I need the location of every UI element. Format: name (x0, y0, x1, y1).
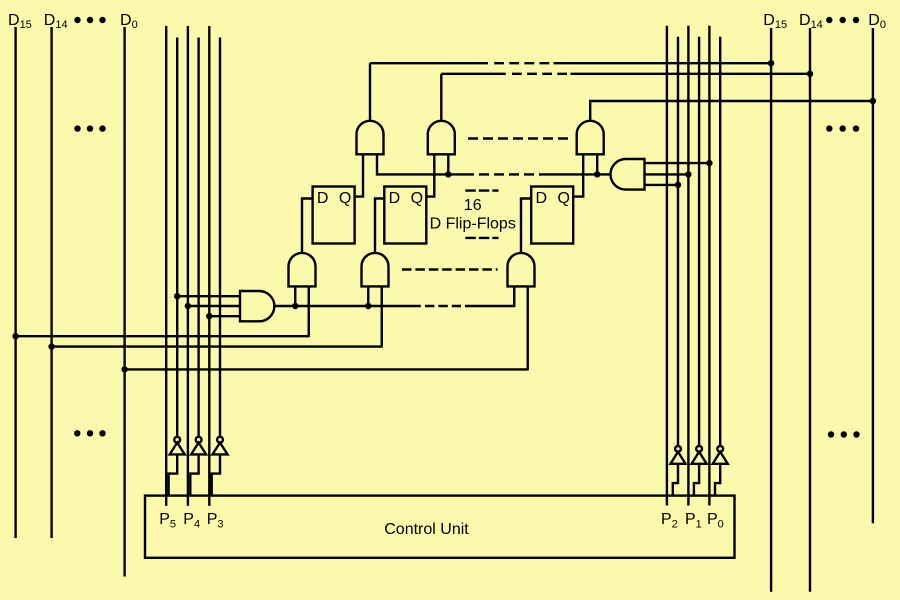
ellipsis dots mid right (826, 125, 859, 131)
inverter N2 (671, 446, 686, 496)
inverter output line P0' (719, 37, 721, 446)
svg-text:D Flip-Flops: D Flip-Flops (430, 215, 516, 232)
svg-text:D: D (389, 190, 401, 207)
control line S0 stub into box (708, 496, 710, 506)
inverter N1 (692, 446, 707, 496)
wire read-bus bit0 (590, 101, 873, 121)
svg-text:D0: D0 (120, 12, 138, 31)
inverter output line P1' (698, 37, 700, 446)
inverter output line P3' (219, 38, 221, 437)
control line S4 stub into box (187, 496, 189, 506)
control line S0 (708, 26, 710, 506)
junction read bus D0 right (870, 98, 876, 104)
AND gate A5 (load bit 14) (362, 253, 389, 286)
bus line D0 right (872, 28, 874, 523)
AND gate A3 (read bit 0) (577, 121, 604, 154)
junction right gate input bottom (675, 182, 681, 188)
svg-text:Control Unit: Control Unit (384, 521, 469, 538)
flip-flop FF1 (313, 187, 355, 244)
svg-text:Q: Q (557, 190, 569, 207)
svg-text:D14: D14 (44, 12, 68, 31)
wire A2 left input from FF2 Q (426, 154, 434, 197)
wire read-bus bit15 solid right part (554, 62, 772, 64)
wire A2 output up to bus (440, 74, 442, 121)
junction D0 tap (121, 366, 127, 372)
control line S4 (187, 26, 189, 506)
wire right gate input middle (645, 173, 689, 175)
ellipsis dots mid left (74, 125, 105, 131)
wire A4 right input leg from D15 wire (308, 286, 310, 337)
wire D0 tap to A6 (125, 368, 528, 370)
ellipsis dots top left (74, 17, 105, 23)
wire read-bus bit14 solid left part (441, 73, 506, 75)
junction read bus D14 right (807, 71, 813, 77)
junction read bus D15 right (768, 60, 774, 66)
wire read-bus bit14 dashed part (512, 73, 567, 75)
wire left gate output (274, 305, 295, 307)
control line S3 (208, 26, 210, 506)
wire read-enable solid left part with A1 right input leg (377, 154, 474, 174)
control line S5 stub into box (165, 496, 167, 506)
wire A3 left input from FF3 Q (573, 154, 583, 197)
wire FF3 D input from load gate A6 (521, 199, 531, 253)
junction load-enable at A4 (292, 303, 298, 309)
dashes below D Flip-Flops label (465, 237, 498, 239)
control line S1 (687, 26, 689, 506)
svg-text:16: 16 (464, 197, 482, 214)
junction D14 tap (48, 343, 54, 349)
bus line D14 right (809, 28, 811, 592)
wire D15 tap to A4 (16, 335, 309, 337)
junction load-enable at A5 (365, 303, 371, 309)
flip-flop FF3 (531, 187, 573, 244)
wire read-enable solid right part to right AND gate output (539, 173, 612, 175)
wire read-bus bit15 dashed part (494, 62, 549, 64)
dashes above 16 label (465, 189, 498, 191)
bus line D0 left (123, 27, 125, 577)
svg-text:D15: D15 (8, 12, 32, 31)
dashed continuation row of read AND gates (468, 137, 568, 139)
wire load-enable solid right part (465, 305, 515, 307)
wire A5 left input leg (367, 286, 369, 306)
AND gate A6 (load bit 0) (508, 253, 535, 286)
ellipsis dots lower right (828, 431, 860, 437)
bus line D15 right (770, 28, 772, 592)
AND gate A1 (read bit 15) (357, 121, 384, 154)
control line S3 stub into box (208, 496, 210, 506)
wire read-bus bit14 solid right part (571, 73, 811, 75)
wire load-enable dashed part (425, 305, 461, 307)
svg-text:Q: Q (411, 190, 423, 207)
wire A3 right input leg (596, 154, 598, 174)
svg-text:D0: D0 (868, 12, 886, 31)
junction left gate input bottom (206, 313, 212, 319)
inverter output line P5' (176, 38, 178, 437)
wire right gate input bottom (645, 184, 679, 186)
svg-text:Q: Q (339, 190, 351, 207)
wire read-enable dashed part (479, 173, 534, 175)
inverter N4 (190, 437, 206, 496)
wire A1 output up to bus (369, 63, 371, 121)
wire left gate input middle (188, 305, 240, 307)
svg-text:D14: D14 (799, 12, 823, 31)
wire left gate input top (177, 295, 240, 297)
ellipsis dots lower left (74, 430, 106, 436)
svg-text:D: D (536, 190, 548, 207)
flip-flop FF2 (384, 187, 426, 244)
wire A5 right input leg from D14 wire (381, 286, 383, 347)
control line S5 (to control unit) (165, 26, 167, 506)
wire right gate input top (645, 162, 710, 164)
junction left gate input middle (185, 303, 191, 309)
control unit box (145, 496, 735, 558)
svg-text:D15: D15 (763, 12, 787, 31)
inverter N5 (169, 437, 185, 496)
junction read-enable at A2 (445, 171, 451, 177)
wire A6 left input leg (end of load-enable wire) (513, 286, 515, 307)
op AND gate right (left-pointing) (611, 159, 645, 190)
inverter N3 (212, 437, 228, 496)
wire D14 tap to A5 (52, 345, 382, 347)
wire load-enable solid left part (295, 305, 421, 307)
svg-text:D: D (317, 190, 329, 207)
wire A2 right input leg (447, 154, 449, 174)
wire A6 right input leg from D0 wire (527, 286, 529, 370)
junction read-enable at A3 (594, 171, 600, 177)
AND gate A4 (load bit 15) (289, 253, 316, 286)
wire A4 left input leg (294, 286, 296, 306)
junction left gate input top (174, 293, 180, 299)
bus line D14 left (50, 27, 52, 538)
junction D15 tap (12, 333, 18, 339)
op AND gate left (right-pointing) (240, 291, 274, 321)
wire FF2 D input from load gate A5 (375, 199, 384, 253)
wire read-bus bit15 solid left part (370, 62, 488, 64)
bus line D15 left (14, 27, 16, 538)
inverter output line P2' (677, 37, 679, 446)
AND gate A2 (read bit 14) (428, 121, 455, 154)
wire FF1 D input from load gate A4 (302, 199, 313, 253)
junction right gate input top (706, 160, 712, 166)
control line S2 (666, 26, 668, 506)
inverter N0 (713, 446, 728, 496)
control line S2 stub into box (666, 496, 668, 506)
wire A1 left input from FF1 Q (355, 154, 363, 197)
control line S1 stub into box (687, 496, 689, 506)
ellipsis dots top right (826, 17, 859, 23)
junction right gate input middle (685, 171, 691, 177)
dashed continuation row of load AND gates (402, 268, 498, 270)
inverter output line P4' (197, 38, 199, 437)
wire left gate input bottom (209, 315, 240, 317)
